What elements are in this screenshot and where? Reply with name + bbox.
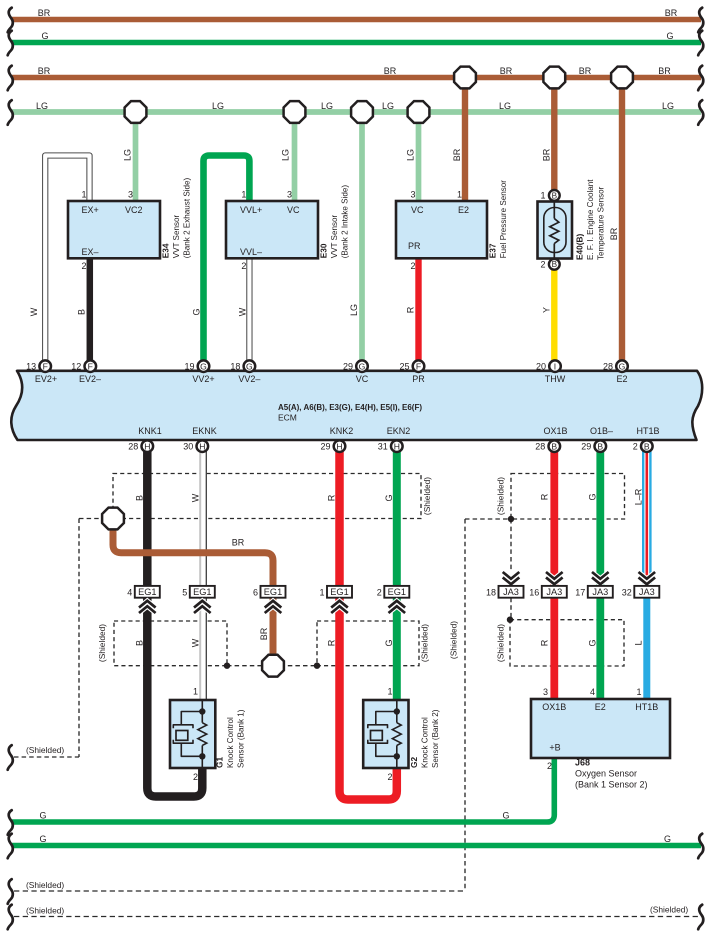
svg-text:EKN2: EKN2 <box>387 426 411 436</box>
svg-text:LG: LG <box>662 101 674 111</box>
svg-text:E30: E30 <box>319 243 329 258</box>
svg-text:20: 20 <box>536 362 546 372</box>
svg-text:LG: LG <box>406 149 416 161</box>
svg-text:E. F. I. Engine Coolant: E. F. I. Engine Coolant <box>586 179 595 260</box>
svg-text:BR: BR <box>500 66 513 76</box>
svg-text:G: G <box>588 493 598 500</box>
svg-text:B: B <box>135 640 145 646</box>
svg-text:E37: E37 <box>488 243 498 258</box>
svg-text:1: 1 <box>387 687 392 697</box>
svg-text:BR: BR <box>665 8 678 18</box>
svg-text:BR: BR <box>542 148 552 161</box>
svg-text:R: R <box>327 494 337 501</box>
svg-text:OX1B: OX1B <box>542 702 566 712</box>
svg-text:25: 25 <box>399 362 409 372</box>
svg-text:31: 31 <box>378 442 388 452</box>
svg-text:G: G <box>502 811 509 821</box>
svg-text:BR: BR <box>384 66 397 76</box>
svg-text:3: 3 <box>287 190 292 200</box>
svg-text:1: 1 <box>81 190 86 200</box>
svg-text:19: 19 <box>184 362 194 372</box>
svg-text:F: F <box>88 361 93 371</box>
svg-text:HT1B: HT1B <box>635 702 658 712</box>
svg-text:EV2+: EV2+ <box>35 374 57 384</box>
svg-text:1: 1 <box>193 687 198 697</box>
svg-text:29: 29 <box>581 442 591 452</box>
svg-text:BR: BR <box>452 148 462 161</box>
svg-text:G: G <box>384 639 394 646</box>
svg-text:G: G <box>200 361 207 371</box>
svg-text:18: 18 <box>486 587 496 597</box>
svg-text:4: 4 <box>590 687 595 697</box>
svg-text:17: 17 <box>575 587 585 597</box>
svg-text:BR: BR <box>259 627 269 640</box>
svg-text:28: 28 <box>535 442 545 452</box>
svg-text:BR: BR <box>579 66 592 76</box>
svg-text:G: G <box>359 361 366 371</box>
svg-text:2: 2 <box>633 442 638 452</box>
svg-text:B: B <box>597 441 603 451</box>
svg-text:28: 28 <box>603 362 613 372</box>
svg-text:30: 30 <box>183 442 193 452</box>
svg-text:THW: THW <box>545 374 566 384</box>
svg-text:2: 2 <box>377 587 382 597</box>
svg-text:Knock Control: Knock Control <box>226 717 235 768</box>
svg-text:32: 32 <box>622 587 632 597</box>
svg-text:R: R <box>327 639 337 646</box>
svg-text:B: B <box>552 191 558 200</box>
svg-text:E34: E34 <box>161 243 171 258</box>
svg-text:JA3: JA3 <box>503 587 519 597</box>
svg-text:+B: +B <box>549 743 560 753</box>
svg-text:5: 5 <box>182 587 187 597</box>
svg-text:3: 3 <box>128 190 133 200</box>
svg-text:1: 1 <box>457 190 462 200</box>
svg-text:R: R <box>540 493 550 500</box>
svg-text:W: W <box>191 493 201 502</box>
svg-text:I: I <box>554 361 556 371</box>
svg-text:EG1: EG1 <box>193 587 211 597</box>
svg-text:(Bank 2 Exhaust Side): (Bank 2 Exhaust Side) <box>183 177 192 258</box>
svg-text:BR: BR <box>232 538 245 548</box>
svg-text:A5(A), A6(B), E3(G), E4(H), E5: A5(A), A6(B), E3(G), E4(H), E5(I), E6(F) <box>278 403 422 412</box>
svg-text:R: R <box>540 639 550 646</box>
svg-text:ECM: ECM <box>278 413 297 423</box>
svg-text:3: 3 <box>410 190 415 200</box>
svg-text:(Shielded): (Shielded) <box>496 477 506 515</box>
svg-text:VVL+: VVL+ <box>240 205 262 215</box>
svg-text:LG: LG <box>349 304 359 316</box>
svg-text:O1B–: O1B– <box>590 426 613 436</box>
svg-text:Oxygen Sensor: Oxygen Sensor <box>575 769 637 779</box>
svg-text:G: G <box>41 31 48 41</box>
svg-text:W: W <box>29 307 39 316</box>
svg-text:(Shielded): (Shielded) <box>26 880 64 890</box>
svg-text:(Shielded): (Shielded) <box>97 624 107 662</box>
svg-text:28: 28 <box>128 442 138 452</box>
svg-text:2: 2 <box>193 772 198 782</box>
svg-text:F: F <box>416 361 421 371</box>
svg-text:E2: E2 <box>458 205 469 215</box>
svg-text:Sensor (Bank 1): Sensor (Bank 1) <box>237 709 246 768</box>
svg-text:BR: BR <box>609 227 619 240</box>
svg-text:2: 2 <box>241 261 246 271</box>
svg-text:13: 13 <box>26 362 36 372</box>
svg-text:EG1: EG1 <box>264 587 282 597</box>
svg-text:(Shielded): (Shielded) <box>449 621 459 659</box>
svg-text:18: 18 <box>230 362 240 372</box>
svg-text:2: 2 <box>540 259 545 269</box>
svg-text:12: 12 <box>71 362 81 372</box>
svg-text:G: G <box>664 834 671 844</box>
svg-text:J68: J68 <box>575 758 590 768</box>
svg-text:HT1B: HT1B <box>636 426 659 436</box>
svg-text:(Bank 2 Intake Side): (Bank 2 Intake Side) <box>341 185 350 259</box>
svg-text:KNK2: KNK2 <box>330 426 354 436</box>
svg-text:R: R <box>406 306 416 313</box>
svg-text:LG: LG <box>499 101 511 111</box>
svg-text:Sensor (Bank 2): Sensor (Bank 2) <box>431 709 440 768</box>
svg-text:E2: E2 <box>595 702 606 712</box>
svg-text:(Shielded): (Shielded) <box>26 745 64 755</box>
svg-text:LG: LG <box>281 149 291 161</box>
svg-text:KNK1: KNK1 <box>138 426 162 436</box>
svg-text:PR: PR <box>412 374 425 384</box>
svg-text:1: 1 <box>319 587 324 597</box>
svg-text:G: G <box>39 834 46 844</box>
svg-text:H: H <box>144 441 150 451</box>
svg-text:G: G <box>246 361 253 371</box>
svg-text:29: 29 <box>320 442 330 452</box>
svg-text:VC2: VC2 <box>125 205 143 215</box>
svg-text:(Bank 1 Sensor 2): (Bank 1 Sensor 2) <box>575 780 648 790</box>
svg-text:G: G <box>39 811 46 821</box>
svg-text:2: 2 <box>410 261 415 271</box>
svg-text:EV2–: EV2– <box>79 374 101 384</box>
svg-text:EKNK: EKNK <box>192 426 217 436</box>
svg-text:B: B <box>135 495 145 501</box>
svg-text:EG1: EG1 <box>138 587 156 597</box>
svg-text:G: G <box>588 639 598 646</box>
svg-text:1: 1 <box>540 190 545 200</box>
svg-text:JA3: JA3 <box>639 587 655 597</box>
svg-text:16: 16 <box>529 587 539 597</box>
svg-text:H: H <box>199 441 205 451</box>
svg-text:VC: VC <box>411 205 424 215</box>
svg-text:F: F <box>43 361 48 371</box>
svg-text:B: B <box>77 309 87 315</box>
svg-text:VV2+: VV2+ <box>192 374 214 384</box>
svg-text:VVL–: VVL– <box>240 247 262 257</box>
svg-text:6: 6 <box>253 587 258 597</box>
svg-text:Y: Y <box>542 307 552 313</box>
svg-text:B: B <box>552 260 558 269</box>
svg-text:E2: E2 <box>616 374 627 384</box>
svg-text:JA3: JA3 <box>546 587 562 597</box>
svg-text:VVT Sensor: VVT Sensor <box>330 215 339 259</box>
svg-text:VVT Sensor: VVT Sensor <box>172 215 181 259</box>
svg-text:(Shielded): (Shielded) <box>420 624 430 662</box>
svg-text:(Shielded): (Shielded) <box>496 624 506 662</box>
svg-text:H: H <box>336 441 342 451</box>
svg-text:3: 3 <box>543 687 548 697</box>
svg-text:LG: LG <box>36 101 48 111</box>
svg-text:BR: BR <box>38 66 51 76</box>
svg-text:BR: BR <box>658 66 671 76</box>
svg-text:Temperature Sensor: Temperature Sensor <box>597 186 606 260</box>
svg-text:(Shielded): (Shielded) <box>650 905 688 915</box>
svg-text:LG: LG <box>212 101 224 111</box>
svg-text:(Shielded): (Shielded) <box>26 906 64 916</box>
svg-text:PR: PR <box>408 241 421 251</box>
svg-text:H: H <box>394 441 400 451</box>
svg-text:LG: LG <box>382 101 394 111</box>
svg-text:VC: VC <box>356 374 369 384</box>
svg-text:LG: LG <box>321 101 333 111</box>
svg-text:EX–: EX– <box>82 247 99 257</box>
svg-text:E40(B): E40(B) <box>575 233 585 260</box>
svg-text:VV2–: VV2– <box>238 374 260 384</box>
svg-text:2: 2 <box>81 261 86 271</box>
svg-text:EG1: EG1 <box>388 587 406 597</box>
svg-text:1: 1 <box>636 687 641 697</box>
svg-text:OX1B: OX1B <box>543 426 567 436</box>
svg-text:29: 29 <box>343 362 353 372</box>
svg-text:B: B <box>644 441 650 451</box>
svg-text:EX+: EX+ <box>82 205 99 215</box>
svg-text:EG1: EG1 <box>330 587 348 597</box>
svg-text:JA3: JA3 <box>592 587 608 597</box>
svg-text:G: G <box>192 308 202 315</box>
svg-text:G: G <box>619 361 626 371</box>
svg-text:Fuel Pressure Sensor: Fuel Pressure Sensor <box>499 180 508 259</box>
svg-text:B: B <box>551 441 557 451</box>
svg-text:4: 4 <box>127 587 132 597</box>
svg-text:G: G <box>666 31 673 41</box>
svg-text:2: 2 <box>387 772 392 782</box>
svg-text:L–R: L–R <box>634 488 644 505</box>
svg-text:1: 1 <box>241 190 246 200</box>
svg-text:LG: LG <box>123 149 133 161</box>
svg-text:L: L <box>634 640 644 645</box>
svg-text:W: W <box>238 307 248 316</box>
svg-text:2: 2 <box>547 761 552 771</box>
svg-text:W: W <box>191 638 201 647</box>
svg-text:G: G <box>384 494 394 501</box>
svg-text:G1: G1 <box>215 757 225 768</box>
svg-text:BR: BR <box>38 8 51 18</box>
svg-text:G2: G2 <box>409 757 419 768</box>
svg-text:Knock Control: Knock Control <box>421 717 430 768</box>
svg-text:VC: VC <box>287 205 300 215</box>
svg-text:(Shielded): (Shielded) <box>422 477 432 515</box>
